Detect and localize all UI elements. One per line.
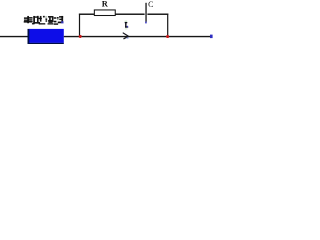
svg-text:R: R bbox=[102, 0, 109, 9]
svg-text:C: C bbox=[148, 0, 153, 9]
